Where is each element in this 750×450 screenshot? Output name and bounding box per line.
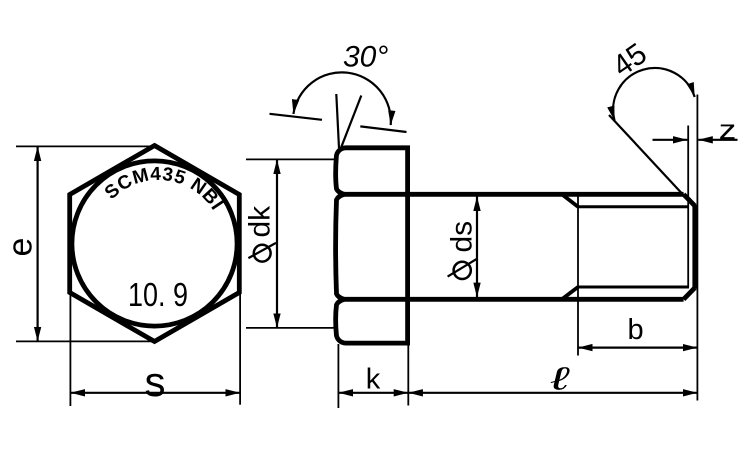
svg-text:ds: ds xyxy=(446,221,479,253)
svg-text:z: z xyxy=(719,114,737,145)
svg-text:s: s xyxy=(145,358,166,405)
svg-text:10. 9: 10. 9 xyxy=(128,276,188,313)
svg-text:30°: 30° xyxy=(343,41,388,74)
svg-text:ℓ: ℓ xyxy=(547,361,574,397)
svg-text:b: b xyxy=(628,314,644,346)
svg-text:SCM435 NBI: SCM435 NBI xyxy=(101,164,227,214)
svg-text:e: e xyxy=(2,238,40,257)
svg-text:45: 45 xyxy=(607,37,653,83)
svg-text:k: k xyxy=(366,364,381,396)
svg-text:dk: dk xyxy=(244,205,277,238)
